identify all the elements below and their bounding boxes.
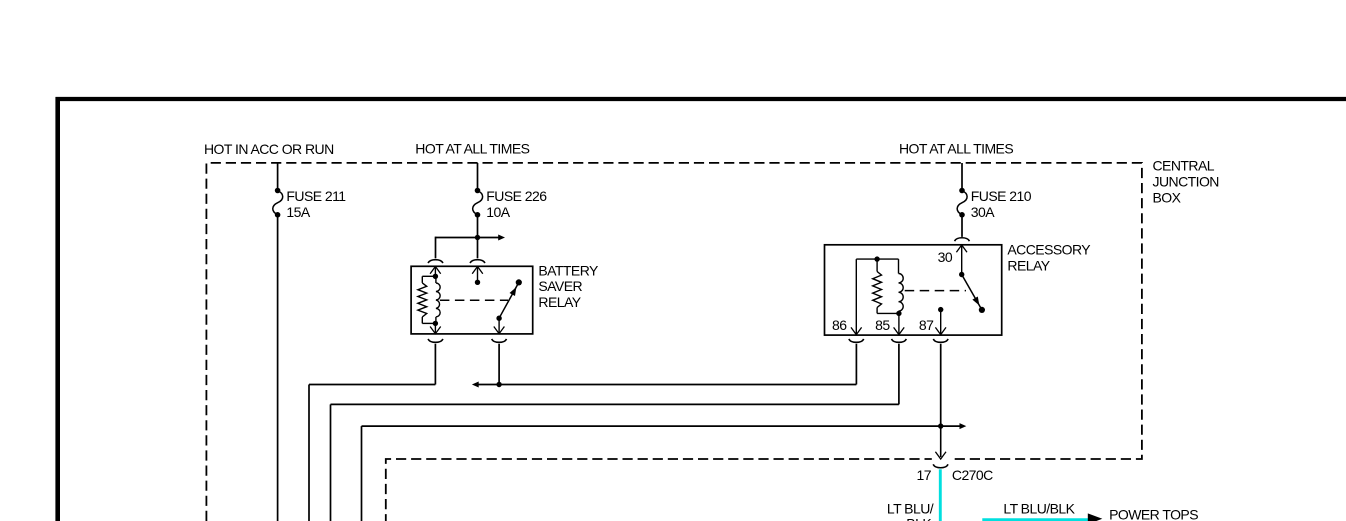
wire fuse 210 output to accessory relay pin 30 — [961, 218, 963, 237]
accessory relay pin 30 up-arrow — [961, 245, 963, 275]
svg-text:17: 17 — [917, 467, 932, 483]
accessory relay connector arc above pin 30 — [955, 238, 970, 241]
wire branch left to battery saver relay coil pin — [436, 237, 478, 239]
dashed actuation link inside accessory relay — [905, 290, 966, 292]
svg-text:HOT AT ALL TIMES: HOT AT ALL TIMES — [899, 141, 1013, 157]
wire branch right continuation arrow — [478, 237, 499, 239]
node middle pin terminal — [475, 280, 480, 285]
battery saver relay coil bottom rail — [422, 322, 435, 324]
battery saver relay switch contact node — [516, 279, 522, 285]
svg-text:10A: 10A — [486, 204, 510, 220]
svg-text:RELAY: RELAY — [1007, 258, 1050, 274]
node coil bottom — [433, 321, 438, 326]
svg-text:ACCESSORY: ACCESSORY — [1007, 242, 1091, 258]
connector C270C arc — [933, 464, 948, 467]
accessory relay pin 86 wire and down-arrow — [855, 259, 857, 335]
battery saver relay coil pin up-arrow — [434, 267, 436, 277]
svg-text:FUSE 226: FUSE 226 — [486, 188, 547, 204]
op battery saver relay U1 box — [411, 266, 533, 334]
page border frame — [56, 97, 1346, 101]
wire fuse 211 output down to bottom edge — [277, 218, 279, 521]
svg-text:LT BLU/: LT BLU/ — [887, 501, 934, 517]
node junction pin 87 net — [938, 423, 943, 428]
accessory relay switch blade with arrow — [962, 275, 982, 310]
fuse FUSE 226 10A — [477, 163, 479, 188]
resistor element of battery saver relay coil (zigzag) — [418, 283, 427, 317]
battery saver relay connector arc bottom-left — [428, 339, 443, 342]
central junction box dashed boundary — [206, 163, 1142, 521]
svg-text:HOT AT ALL TIMES: HOT AT ALL TIMES — [415, 141, 529, 157]
wire net from accessory pin 86 left with continuation arrow — [855, 344, 857, 385]
node coil top accessory — [874, 256, 879, 261]
svg-text:BLK: BLK — [906, 516, 932, 521]
svg-text:LT BLU/BLK: LT BLU/BLK — [1003, 501, 1075, 517]
node junction below fuse 226 — [475, 235, 480, 240]
battery saver relay switch pin down-arrow — [498, 318, 500, 334]
wire net from accessory pin 85 left and down to bottom edge — [898, 344, 900, 405]
inductor winding of accessory relay coil — [898, 259, 900, 273]
accessory relay connector arc below pin 87 — [933, 339, 948, 342]
accessory relay pin 85 wire and down-arrow — [898, 313, 900, 334]
accessory relay coil top rail — [856, 258, 898, 260]
svg-text:RELAY: RELAY — [538, 294, 581, 310]
wire pin 87 down to connector C270C with open arrow — [932, 458, 950, 461]
svg-text:C270C: C270C — [952, 467, 993, 483]
accessory relay pin 87 wire and down-arrow — [940, 310, 942, 335]
wire fuse 226 output to junction — [477, 218, 479, 259]
battery saver relay connector arc top-middle — [470, 260, 485, 263]
node coil bottom / pin 85 — [896, 311, 901, 316]
svg-text:JUNCTION: JUNCTION — [1153, 174, 1219, 190]
svg-text:30A: 30A — [971, 204, 995, 220]
accessory relay switch pivot node — [959, 272, 964, 277]
wire pin 87 continuation arrow right — [941, 425, 960, 427]
svg-text:86: 86 — [832, 317, 847, 333]
svg-text:FUSE 210: FUSE 210 — [971, 188, 1032, 204]
svg-text:15A: 15A — [286, 204, 310, 220]
svg-text:CENTRAL: CENTRAL — [1153, 157, 1215, 173]
accessory relay switch contact node — [979, 307, 985, 313]
wire net from accessory pin 87 left and down to bottom edge — [940, 344, 942, 426]
battery saver relay connector arc top-left — [428, 260, 443, 263]
battery saver relay middle pin up-arrow — [477, 267, 479, 283]
arrow to POWER TOPS — [1088, 513, 1103, 521]
battery saver relay switch pivot node — [496, 316, 501, 321]
svg-text:BATTERY: BATTERY — [538, 263, 599, 279]
battery saver relay coil bottom pin down-arrow — [434, 323, 436, 333]
wire battery saver coil pin down-left to bottom edge — [434, 344, 436, 385]
inductor winding of battery saver relay coil — [436, 283, 440, 317]
battery saver relay coil top rail — [422, 275, 435, 277]
accessory relay pin 87 node — [938, 307, 943, 312]
wire battery saver switch pin down to net — [498, 344, 500, 385]
svg-text:FUSE 211: FUSE 211 — [286, 188, 346, 204]
fuse FUSE 211 15A — [277, 163, 279, 188]
fuse FUSE 210 30A — [961, 163, 963, 188]
svg-text:BOX: BOX — [1153, 190, 1182, 206]
svg-text:POWER TOPS: POWER TOPS — [1109, 506, 1198, 521]
op accessory relay U2 box — [825, 245, 1002, 335]
svg-text:HOT IN ACC OR RUN: HOT IN ACC OR RUN — [204, 141, 334, 157]
battery saver relay switch blade with arrow — [499, 282, 519, 318]
dashed actuation link inside battery saver relay — [440, 299, 508, 301]
svg-text:30: 30 — [938, 249, 953, 265]
accessory relay connector arc below pin 85 — [892, 339, 907, 342]
battery saver relay connector arc bottom-right — [492, 339, 507, 342]
svg-text:87: 87 — [919, 317, 934, 333]
resistor element of accessory relay coil (zigzag) — [873, 272, 882, 308]
svg-text:SAVER: SAVER — [538, 278, 582, 294]
node junction switch pin / pin86 net — [496, 382, 501, 387]
svg-text:85: 85 — [875, 317, 890, 333]
wire LT BLU vertical (cyan) — [939, 469, 942, 521]
node coil top — [433, 274, 438, 279]
wire LT BLU/BLK horizontal (cyan) to POWER TOPS — [982, 518, 1089, 521]
accessory relay connector arc below pin 86 — [849, 339, 864, 342]
accessory relay coil bottom rail — [877, 312, 899, 314]
